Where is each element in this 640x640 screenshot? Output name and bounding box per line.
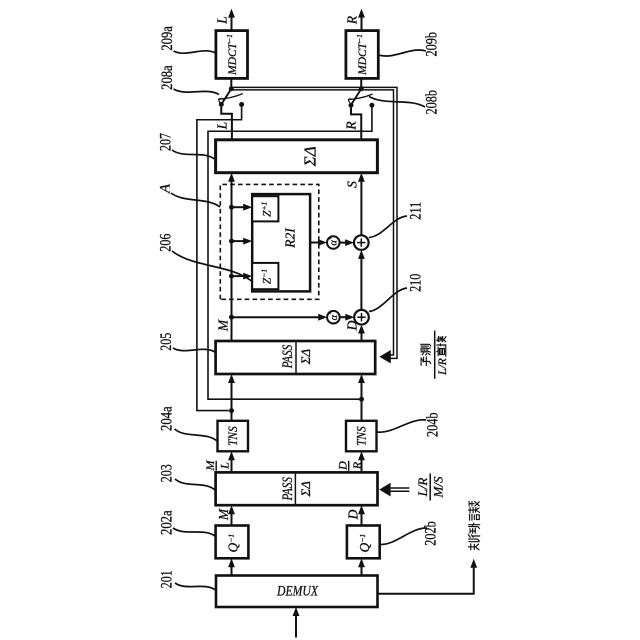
svg-text:204b: 204b (425, 412, 442, 437)
svg-text:208b: 208b (424, 90, 441, 115)
svg-text:D: D (345, 320, 360, 331)
svg-text:M: M (216, 508, 231, 521)
svg-text:R: R (345, 15, 360, 25)
svg-text:ΣΔ: ΣΔ (301, 146, 320, 167)
svg-text:M/S: M/S (431, 476, 446, 498)
svg-text:TNS: TNS (353, 426, 368, 446)
svg-text:201: 201 (159, 570, 176, 588)
svg-text:207: 207 (158, 133, 175, 151)
svg-text:PASS: PASS (280, 344, 296, 369)
svg-text:L/R: L/R (437, 358, 449, 376)
svg-text:R2I: R2I (283, 227, 298, 249)
svg-text:D: D (336, 461, 350, 471)
svg-text:202b: 202b (423, 521, 440, 546)
svg-text:203: 203 (159, 464, 176, 482)
svg-text:205: 205 (158, 333, 175, 351)
svg-text:TNS: TNS (225, 426, 240, 446)
svg-text:α: α (329, 314, 340, 320)
svg-text:202a: 202a (159, 510, 176, 535)
svg-text:R: R (344, 121, 359, 131)
svg-text:211: 211 (408, 202, 425, 220)
svg-text:L: L (215, 122, 230, 131)
svg-text:204a: 204a (159, 406, 176, 431)
svg-text:L: L (218, 462, 232, 470)
svg-text:208a: 208a (159, 65, 176, 90)
svg-text:210: 210 (408, 274, 425, 292)
svg-text:209a: 209a (159, 26, 176, 51)
svg-text:ΣΔ: ΣΔ (298, 348, 313, 365)
svg-text:L: L (215, 16, 230, 25)
svg-text:D: D (346, 509, 361, 520)
svg-text:R: R (350, 461, 364, 470)
svg-text:M: M (216, 319, 231, 332)
svg-text:α: α (329, 240, 340, 246)
svg-text:L/R: L/R (415, 478, 430, 498)
svg-text:M: M (203, 460, 217, 472)
svg-text:ΣΔ: ΣΔ (298, 481, 313, 498)
svg-text:209b: 209b (424, 32, 441, 57)
svg-text:A: A (158, 183, 174, 194)
svg-text:PASS: PASS (280, 476, 296, 501)
svg-text:S: S (345, 181, 360, 188)
svg-text:206: 206 (158, 234, 175, 252)
svg-text:DEMUX: DEMUX (276, 584, 318, 600)
